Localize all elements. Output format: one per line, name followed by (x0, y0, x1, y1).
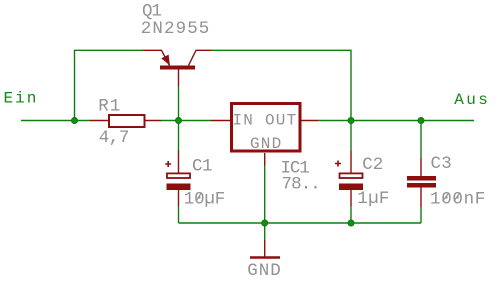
svg-text:Aus: Aus (454, 91, 490, 109)
svg-text:C2: C2 (362, 155, 383, 175)
svg-text:10µF: 10µF (184, 189, 225, 209)
svg-text:2N2955: 2N2955 (141, 19, 211, 39)
svg-text:R1: R1 (98, 97, 121, 117)
svg-text:GND: GND (250, 135, 282, 153)
svg-text:4,7: 4,7 (99, 128, 129, 148)
svg-text:C1: C1 (192, 156, 212, 176)
svg-text:1µF: 1µF (357, 189, 389, 209)
svg-text:78..: 78.. (282, 175, 320, 195)
svg-text:OUT: OUT (265, 112, 297, 130)
svg-text:Ein: Ein (4, 90, 39, 108)
svg-text:C3: C3 (431, 154, 452, 174)
svg-text:100nF: 100nF (430, 189, 486, 209)
svg-text:IN: IN (233, 112, 255, 130)
svg-text:GND: GND (247, 261, 282, 281)
